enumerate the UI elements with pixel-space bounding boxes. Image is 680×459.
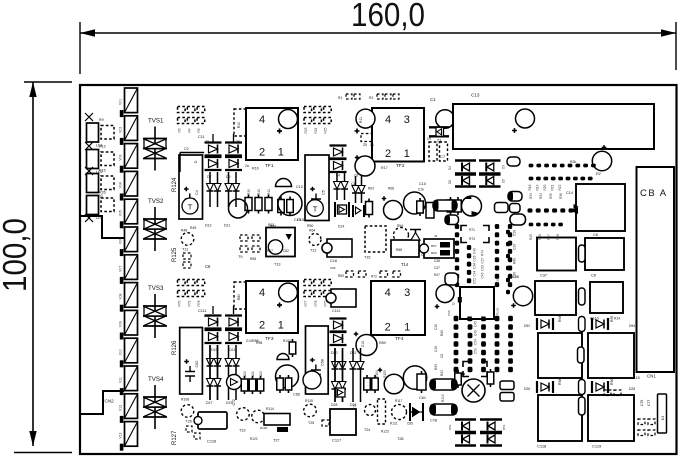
connector segment 8 — [120, 283, 138, 312]
diode column D16 — [341, 172, 348, 200]
svg-text:D19: D19 — [211, 348, 217, 352]
svg-text:C54: C54 — [474, 339, 478, 345]
diode D14 boxed — [335, 202, 349, 217]
svg-text:C6: C6 — [593, 233, 598, 237]
svg-text:1: 1 — [278, 320, 284, 332]
relay C119 — [588, 395, 634, 441]
transistor T8 dashed — [394, 228, 409, 243]
relay C10 — [590, 282, 623, 313]
resistor row R18-R22 — [529, 177, 534, 181]
svg-text:T26: T26 — [186, 420, 192, 424]
connector segment 9 — [120, 310, 138, 339]
relay C14 — [576, 184, 625, 231]
svg-text:R110: R110 — [441, 394, 445, 402]
capacitor C20 stadium — [579, 288, 586, 305]
svg-text:C33: C33 — [481, 265, 485, 271]
svg-text:V07: V07 — [119, 266, 123, 272]
capacitor C46 — [579, 380, 586, 395]
svg-text:D51: D51 — [502, 424, 506, 430]
svg-text:C66: C66 — [293, 393, 300, 397]
svg-text:2: 2 — [259, 147, 265, 159]
relay T27 — [264, 414, 290, 426]
svg-text:C61: C61 — [419, 396, 426, 400]
svg-text:C36: C36 — [513, 272, 517, 278]
trace row C7b — [529, 164, 534, 168]
bracket box R71 R73 — [461, 226, 489, 243]
svg-text:V11: V11 — [119, 377, 123, 383]
resistor group R77 R78 R75 — [304, 280, 312, 286]
capacitor C1 — [436, 110, 455, 129]
diode column D18 — [358, 176, 365, 203]
suppressor TVS3 — [143, 294, 167, 338]
capacitor C66 — [303, 371, 321, 389]
svg-text:R122: R122 — [250, 437, 258, 441]
svg-text:C14: C14 — [566, 191, 573, 195]
connector segment 1 — [120, 88, 138, 117]
svg-text:R70: R70 — [178, 300, 182, 306]
board outline — [80, 85, 677, 454]
relay C37 — [537, 238, 576, 271]
diode — [214, 345, 221, 400]
svg-text:R2: R2 — [596, 172, 601, 176]
svg-text:T27: T27 — [273, 439, 280, 443]
svg-text:V02: V02 — [119, 127, 123, 133]
zener Z2 — [205, 143, 222, 156]
extension line right — [675, 22, 677, 70]
svg-text:V08: V08 — [119, 293, 123, 299]
diode — [339, 348, 346, 402]
svg-text:D4: D4 — [448, 166, 452, 170]
IC C116 — [198, 412, 227, 429]
capacitor C3 — [229, 199, 248, 218]
svg-text:R48: R48 — [556, 234, 560, 240]
connector segment 2 — [120, 116, 138, 145]
zener Z5 — [361, 134, 372, 142]
svg-text:C6: C6 — [205, 264, 211, 269]
svg-text:R24: R24 — [314, 127, 318, 133]
svg-text:R102: R102 — [259, 371, 263, 379]
svg-text:R71: R71 — [187, 300, 191, 306]
capacitor C67 — [403, 366, 426, 389]
svg-text:R71: R71 — [469, 228, 475, 232]
svg-text:Z13: Z13 — [361, 341, 365, 347]
connector segment 11 — [120, 366, 138, 395]
svg-text:D94: D94 — [629, 324, 635, 328]
svg-text:1: 1 — [278, 147, 284, 159]
notch of T10 — [322, 243, 332, 253]
svg-text:R3: R3 — [178, 128, 182, 132]
svg-text:R45: R45 — [529, 234, 533, 240]
resistor R15 — [87, 174, 99, 193]
svg-text:CN1: CN1 — [647, 374, 656, 379]
svg-text:C5: C5 — [322, 190, 326, 195]
relay T13 — [266, 228, 295, 257]
svg-text:C1: C1 — [430, 97, 436, 102]
svg-text:R18: R18 — [528, 184, 532, 190]
svg-text:C44: C44 — [473, 270, 477, 276]
connector segment 6 — [120, 227, 138, 256]
svg-text:2: 2 — [385, 148, 391, 160]
svg-text:C45: C45 — [474, 321, 478, 327]
svg-text:T15: T15 — [364, 256, 371, 260]
capacitor C22 — [592, 151, 611, 170]
zener Z11a — [330, 332, 347, 345]
transistor T12 — [309, 234, 321, 246]
svg-text:J3: J3 — [434, 234, 438, 238]
svg-text:D27: D27 — [206, 401, 212, 405]
svg-text:R9: R9 — [99, 118, 104, 122]
capacitor C28 — [495, 203, 509, 213]
svg-text:T11: T11 — [182, 248, 188, 252]
connector segment 5 — [120, 199, 138, 228]
zener Z4a — [330, 159, 347, 172]
resistor R80 — [234, 282, 246, 309]
extension line top — [24, 81, 72, 83]
connector segment 4 — [120, 171, 138, 200]
svg-text:R64: R64 — [309, 229, 315, 233]
svg-text:C26: C26 — [473, 255, 477, 261]
svg-text:2a: 2a — [245, 164, 249, 168]
diode — [350, 348, 357, 402]
svg-text:R21: R21 — [551, 184, 555, 190]
svg-text:R2: R2 — [369, 96, 373, 100]
svg-text:V01: V01 — [119, 99, 123, 105]
diode column D15 — [334, 172, 341, 200]
wire C2 — [180, 152, 204, 154]
resistor group R3 R4 R5 — [178, 107, 186, 113]
suppressor TVS2 — [143, 207, 167, 251]
svg-text:100,0: 100,0 — [0, 218, 33, 292]
svg-text:V03: V03 — [119, 154, 123, 160]
svg-text:C4: C4 — [336, 174, 340, 178]
svg-text:D13: D13 — [205, 224, 211, 228]
transistor R115 — [181, 405, 194, 418]
svg-text:T: T — [188, 203, 193, 212]
svg-text:R92: R92 — [440, 370, 444, 376]
svg-text:TVS3: TVS3 — [148, 285, 164, 292]
svg-text:C1b: C1b — [418, 188, 424, 192]
svg-text:D28: D28 — [629, 387, 635, 391]
svg-text:R19: R19 — [536, 184, 540, 190]
resistor R104 — [277, 375, 284, 393]
resistor R105 — [285, 375, 292, 393]
top dimension line — [80, 32, 676, 34]
svg-text:R108: R108 — [181, 398, 189, 402]
svg-text:1: 1 — [404, 322, 410, 334]
svg-text:TVS2: TVS2 — [148, 198, 164, 205]
svg-text:R41: R41 — [267, 189, 271, 195]
lead stubs Z2 Z6 — [212, 134, 214, 142]
relay R58 — [424, 239, 454, 258]
extension line bottom — [14, 452, 72, 454]
diode D7 — [207, 172, 214, 207]
relay C110 — [535, 281, 576, 315]
svg-text:TVS1: TVS1 — [148, 118, 164, 125]
svg-text:3: 3 — [404, 287, 410, 299]
relay K2 stadium — [508, 192, 522, 202]
svg-text:R23: R23 — [304, 127, 308, 133]
svg-text:D28: D28 — [331, 403, 337, 407]
svg-text:R39: R39 — [247, 189, 251, 195]
LED LD4 — [101, 198, 114, 212]
svg-text:C30: C30 — [513, 244, 517, 250]
svg-text:C50: C50 — [447, 310, 451, 316]
svg-text:R60: R60 — [431, 251, 437, 255]
capacitor C63 — [276, 365, 299, 388]
svg-text:R80: R80 — [237, 294, 241, 300]
diode — [332, 348, 339, 402]
diode D29 boxed — [336, 388, 345, 397]
resistor group R70 R71 R76 — [178, 280, 186, 286]
connector segment 3 — [120, 144, 138, 173]
svg-text:D26: D26 — [524, 387, 530, 391]
svg-text:R20: R20 — [543, 184, 547, 190]
transistor T23 — [237, 408, 250, 421]
svg-text:TF3: TF3 — [265, 336, 274, 342]
transistor R119 — [304, 404, 317, 417]
svg-text:4: 4 — [385, 114, 391, 126]
svg-text:LD4: LD4 — [96, 216, 103, 220]
svg-text:R13: R13 — [99, 145, 106, 149]
svg-text:R98: R98 — [256, 341, 262, 345]
relay C83 — [391, 240, 419, 257]
svg-text:C116: C116 — [207, 439, 217, 444]
capacitor C78 — [430, 379, 457, 390]
transistor T10 rect — [327, 239, 352, 257]
zener Z6a — [225, 157, 242, 170]
svg-text:D81: D81 — [448, 424, 452, 430]
connector segment 10 — [120, 338, 138, 367]
svg-text:K3: K3 — [661, 416, 665, 420]
capacitor C69 stadium — [579, 397, 586, 415]
svg-text:R94: R94 — [558, 316, 562, 322]
svg-text:C9: C9 — [427, 137, 431, 141]
capacitor C92 — [500, 381, 514, 390]
svg-text:Z14: Z14 — [246, 339, 252, 343]
svg-text:O: O — [452, 302, 455, 306]
LED T2 — [227, 375, 242, 390]
svg-text:R98: R98 — [558, 379, 562, 385]
trace arrow row — [528, 208, 533, 212]
svg-text:R4: R4 — [187, 128, 191, 132]
svg-text:C37: C37 — [434, 266, 440, 270]
svg-text:C9b: C9b — [330, 266, 336, 270]
svg-text:C7B: C7B — [430, 419, 438, 423]
svg-text:R121: R121 — [390, 422, 398, 426]
relay C117a — [538, 333, 582, 378]
svg-text:R5: R5 — [197, 128, 201, 132]
svg-text:4: 4 — [259, 114, 265, 126]
svg-text:R100: R100 — [243, 371, 247, 379]
LED LD2 — [101, 152, 114, 166]
svg-text:R125: R125 — [172, 247, 178, 262]
resistor R13 — [87, 150, 99, 169]
svg-text:C8: C8 — [591, 274, 596, 278]
svg-text:R63: R63 — [268, 223, 274, 227]
svg-text:R95: R95 — [610, 316, 614, 322]
capacitor R11 — [356, 109, 375, 128]
via column right — [506, 230, 510, 235]
zener Z14a — [225, 330, 242, 343]
svg-text:C8: C8 — [354, 174, 358, 178]
svg-text:T: T — [313, 205, 318, 214]
svg-text:R127: R127 — [172, 430, 178, 445]
svg-text:C38: C38 — [434, 324, 438, 330]
svg-text:R119: R119 — [305, 399, 313, 403]
svg-text:R103: R103 — [283, 339, 291, 343]
resistor R111 — [455, 370, 462, 388]
svg-text:4: 4 — [385, 287, 391, 299]
svg-text:V04: V04 — [119, 182, 123, 188]
transistor T11 — [181, 233, 194, 246]
polarity mark of TF1 — [279, 110, 298, 129]
left dimension line — [32, 82, 34, 446]
svg-text:R11: R11 — [359, 117, 363, 123]
svg-text:C38: C38 — [434, 259, 440, 263]
relay C117 — [330, 409, 356, 435]
svg-text:V12: V12 — [119, 405, 123, 411]
lead stubs Z10 Z14 — [212, 306, 214, 314]
connector K3 — [658, 394, 667, 433]
svg-text:1: 1 — [404, 148, 410, 160]
svg-text:2: 2 — [259, 320, 265, 332]
svg-text:R15: R15 — [99, 169, 106, 173]
suppressor TVS4 — [143, 385, 167, 429]
svg-text:C11: C11 — [198, 135, 205, 139]
svg-text:R14: R14 — [614, 317, 620, 321]
dashes near R123 — [365, 405, 376, 416]
capacitor Z3 — [355, 156, 375, 176]
connector segment 12 — [120, 394, 138, 423]
svg-text:C72: C72 — [232, 399, 236, 405]
relay K4 stadium — [507, 157, 520, 166]
svg-text:D9: D9 — [226, 175, 231, 179]
svg-text:C10: C10 — [419, 182, 426, 186]
svg-text:T13: T13 — [274, 263, 281, 267]
capacitor C46 — [579, 317, 586, 332]
bracket box T16 — [463, 362, 487, 377]
svg-text:C118: C118 — [537, 444, 547, 449]
transistor T7 — [462, 196, 482, 216]
svg-text:C15: C15 — [297, 218, 304, 222]
diode D26 — [537, 381, 553, 393]
svg-text:R65: R65 — [250, 257, 256, 261]
resistor R9 — [87, 123, 99, 142]
diode — [233, 345, 240, 400]
svg-text:R22: R22 — [558, 184, 562, 190]
resistor R57 — [366, 199, 373, 218]
svg-text:R74: R74 — [481, 250, 485, 256]
transistor T15 — [365, 226, 386, 252]
diode — [214, 172, 221, 207]
svg-text:C119: C119 — [592, 444, 602, 449]
svg-text:C58: C58 — [321, 359, 325, 366]
diode — [357, 348, 364, 402]
connector segment 13 — [120, 422, 138, 451]
svg-text:C27: C27 — [481, 257, 485, 263]
svg-text:R78: R78 — [314, 300, 318, 306]
transformer TF4 — [371, 281, 425, 335]
svg-text:C85: C85 — [407, 422, 413, 426]
svg-text:T25: T25 — [308, 421, 314, 425]
svg-text:D14: D14 — [338, 225, 344, 229]
svg-text:R89: R89 — [379, 341, 386, 345]
diode — [207, 345, 214, 400]
svg-text:R49: R49 — [190, 226, 196, 230]
transistor T5 D-shape — [276, 179, 292, 187]
connector CBA / CN1 — [637, 167, 675, 372]
svg-text:D7: D7 — [207, 175, 212, 179]
svg-text:D9: D9 — [226, 0, 231, 1]
svg-text:C48: C48 — [434, 346, 438, 352]
svg-text:Z10: Z10 — [204, 314, 210, 318]
zener Z14 — [225, 316, 242, 329]
svg-text:C8: C8 — [351, 182, 356, 186]
board edge notch lower / CN2 — [80, 391, 124, 414]
svg-text:R35: R35 — [549, 193, 553, 199]
capacitor C4 — [179, 155, 203, 219]
transistor T16 — [462, 379, 485, 402]
relay C8 — [585, 238, 624, 270]
svg-text:V05: V05 — [119, 210, 123, 216]
svg-text:Z2: Z2 — [205, 140, 209, 144]
svg-text:R67: R67 — [267, 249, 273, 253]
test point marks — [85, 113, 93, 121]
svg-text:C49: C49 — [474, 330, 478, 336]
svg-text:C59: C59 — [474, 348, 478, 354]
svg-text:R101: R101 — [251, 371, 255, 379]
svg-text:R77: R77 — [304, 300, 308, 306]
LED LD1 — [101, 126, 114, 140]
capacitor C45 stadium — [578, 347, 585, 363]
capacitor C61 — [417, 371, 426, 393]
svg-text:T14: T14 — [401, 262, 409, 267]
svg-text:C4: C4 — [195, 190, 199, 195]
svg-text:R68: R68 — [513, 258, 517, 264]
transistor T28 dashed — [378, 399, 386, 424]
capacitor C23 — [404, 192, 426, 214]
zener Z11 — [330, 319, 347, 332]
diode D14b boxed — [353, 205, 364, 217]
svg-text:2: 2 — [385, 322, 391, 334]
polarity mark of TF3 — [279, 283, 298, 302]
svg-text:R33: R33 — [529, 193, 533, 199]
svg-text:D22: D22 — [350, 351, 356, 355]
svg-text:D11: D11 — [224, 224, 230, 228]
suppressor TVS1 — [143, 127, 167, 171]
svg-text:Z6: Z6 — [370, 143, 374, 147]
svg-text:D3: D3 — [502, 165, 506, 169]
svg-text:C77: C77 — [647, 400, 651, 406]
svg-text:V09: V09 — [119, 321, 123, 327]
svg-text:CN2: CN2 — [105, 399, 115, 404]
svg-text:C112: C112 — [332, 309, 340, 313]
svg-text:R123: R123 — [381, 430, 389, 434]
svg-text:CB A: CB A — [640, 188, 668, 199]
svg-text:C43: C43 — [481, 272, 485, 278]
sres pair left of T7 — [447, 197, 454, 215]
capacitor C36 — [513, 286, 532, 305]
polarity mark of C13 — [516, 109, 535, 128]
zener Z2a — [205, 157, 222, 170]
svg-text:TF4: TF4 — [395, 336, 404, 342]
svg-text:R47: R47 — [434, 273, 440, 277]
svg-text:D120: D120 — [260, 426, 268, 430]
svg-text:R76: R76 — [197, 300, 201, 306]
zener Z4 — [330, 146, 347, 159]
svg-text:C16: C16 — [330, 259, 337, 263]
resistor R112 — [487, 369, 494, 387]
